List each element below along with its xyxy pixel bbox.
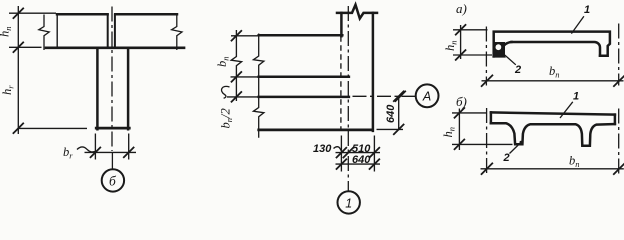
leader squiggle from b_r to dimension line bbox=[77, 147, 97, 152]
tick b_n right (a) bbox=[613, 75, 624, 87]
panel (b): soffit and two ribs bbox=[491, 123, 615, 146]
extension line mid (slab soffit) bbox=[9, 46, 42, 48]
wall left edge hidden (dashed) bbox=[340, 36, 342, 129]
tick 640 top bbox=[393, 91, 404, 102]
tick 130 left bbox=[336, 147, 347, 158]
tick h_n bottom (b) bbox=[454, 139, 465, 150]
section leader to circle A (dash-dot) bbox=[353, 95, 416, 97]
extension top (a) bbox=[453, 29, 488, 31]
axis line right (b) bbox=[618, 109, 620, 175]
wall right edge bbox=[372, 13, 375, 131]
hook leader for b_n/2 bbox=[222, 86, 230, 98]
tick at slab line C bbox=[231, 91, 242, 102]
tick b_r left bbox=[90, 147, 101, 158]
joint: left panel end edge bbox=[107, 14, 109, 47]
tick b_r right bbox=[123, 147, 134, 158]
node circle б bbox=[102, 169, 124, 191]
svg-text:130: 130 bbox=[313, 143, 332, 155]
tick at slab line A bbox=[231, 30, 242, 41]
tick h_n top (b) bbox=[454, 107, 465, 118]
panel (a): hole in left foot bbox=[496, 44, 502, 50]
panel (a): left foot fill bbox=[494, 42, 505, 56]
tick h_n bottom (a) bbox=[455, 50, 466, 61]
extension stub B bbox=[231, 76, 259, 78]
tick at axis bbox=[343, 147, 354, 158]
panel (b): left edge bbox=[490, 112, 493, 123]
dimension line b_n (vertical, with break) bbox=[231, 30, 241, 101]
tick h_n bottom / h_r top bbox=[13, 42, 24, 53]
svg-text:640: 640 bbox=[352, 154, 371, 166]
axis line left (a) bbox=[485, 27, 487, 86]
right break line with zigzag bbox=[172, 15, 182, 51]
rib left wall bbox=[96, 49, 99, 130]
wall axis centerline (dash-dot) to node 1 bbox=[347, 6, 349, 191]
tick b_n left (a) bbox=[481, 75, 493, 87]
svg-text:1: 1 bbox=[345, 196, 352, 210]
svg-text:1: 1 bbox=[573, 91, 579, 103]
callout 2 (a) with leader bbox=[505, 55, 516, 65]
slab line A bbox=[259, 34, 343, 37]
axis line right (a) bbox=[618, 24, 620, 86]
tick 640b left bbox=[336, 159, 347, 170]
h_n dimension line (b) bbox=[458, 109, 460, 151]
middle figure: break line with zigzags bbox=[253, 34, 264, 138]
b_n dimension line (b) bbox=[481, 168, 624, 170]
slab top line (right panel) bbox=[115, 13, 177, 16]
svg-text:б): б) bbox=[456, 94, 467, 109]
svg-text:640: 640 bbox=[385, 104, 397, 123]
svg-text:а): а) bbox=[456, 1, 467, 16]
stem to circle б bbox=[111, 152, 113, 169]
svg-text:1: 1 bbox=[584, 4, 590, 16]
wall left edge (solid above slab) bbox=[340, 13, 343, 36]
extension stub A bbox=[231, 35, 259, 37]
axis line left (b) bbox=[486, 108, 488, 173]
svg-text:2: 2 bbox=[503, 152, 510, 164]
left figure: vertical dimension line (h_n / h_r) bbox=[17, 6, 19, 134]
panel (a): outer profile bbox=[494, 32, 610, 57]
panel (b): top flange bbox=[491, 112, 615, 114]
b_r extension right bbox=[128, 134, 130, 160]
svg-text:б: б bbox=[109, 174, 117, 189]
tick b_n right (b) bbox=[613, 163, 624, 175]
slab top line (left panel) bbox=[57, 13, 108, 16]
svg-text:2: 2 bbox=[514, 64, 521, 76]
slab line D (bottom, to wall corner) bbox=[259, 129, 373, 132]
tick b_n left (b) bbox=[481, 163, 493, 175]
slab left edge bbox=[56, 13, 58, 46]
tick at slab line B bbox=[231, 71, 242, 82]
tick 640 bottom bbox=[393, 124, 404, 135]
extension line top (slab top) bbox=[9, 12, 56, 14]
svg-text:bn/2: bn/2 bbox=[219, 108, 235, 128]
tick 510 right bbox=[369, 147, 380, 158]
640 vertical dimension line bbox=[398, 96, 400, 129]
dimension line 130+510 bbox=[336, 152, 381, 154]
extension line bottom (rib bottom) bbox=[18, 127, 87, 129]
panel (a): left foot inner hook bbox=[494, 42, 512, 56]
node circle 1 bbox=[338, 191, 360, 213]
wall top edge with zigzag break bbox=[337, 5, 377, 19]
tick h_n top bbox=[13, 8, 24, 19]
tick h_r bottom bbox=[13, 123, 24, 134]
joint: right panel end edge bbox=[114, 14, 116, 47]
extension stub C bbox=[227, 96, 259, 98]
640 extension line (right of wall bottom) bbox=[377, 128, 404, 130]
bottom extension line right (wall face) bbox=[373, 136, 375, 172]
extension bottom (a) bbox=[453, 54, 492, 56]
rib right wall bbox=[127, 49, 130, 130]
dimension line 640 (bottom) bbox=[336, 163, 381, 165]
slab bottom line bbox=[46, 46, 184, 49]
h_n dimension line (a) bbox=[460, 25, 462, 59]
svg-text:A: A bbox=[422, 90, 431, 104]
callout 1 (a) with leader bbox=[571, 16, 584, 33]
panel (a): right foot inner profile bbox=[512, 42, 601, 56]
extension top (b) bbox=[452, 112, 487, 114]
panel (b): right edge bbox=[614, 115, 617, 124]
extension bottom (b) bbox=[452, 143, 513, 145]
rib bottom bbox=[96, 127, 129, 130]
callout 2 (b) with leader and dot bbox=[510, 143, 521, 154]
left break line with zigzag bbox=[39, 15, 49, 51]
b_n dimension line (a) bbox=[482, 80, 624, 82]
bottom extension line left (wall face) bbox=[340, 136, 342, 172]
tick h_n top (a) bbox=[455, 24, 466, 35]
slab line C bbox=[259, 96, 349, 99]
node circle A bbox=[416, 84, 439, 107]
tick on A leader bbox=[395, 91, 406, 102]
b_r extension left bbox=[94, 134, 96, 160]
b_r dimension line bbox=[85, 151, 137, 153]
slab line B bbox=[259, 75, 349, 78]
tick 640b right bbox=[369, 159, 380, 170]
centerline of rib (dash-dot) bbox=[111, 7, 113, 152]
callout 1 (b) with leader bbox=[560, 102, 573, 118]
